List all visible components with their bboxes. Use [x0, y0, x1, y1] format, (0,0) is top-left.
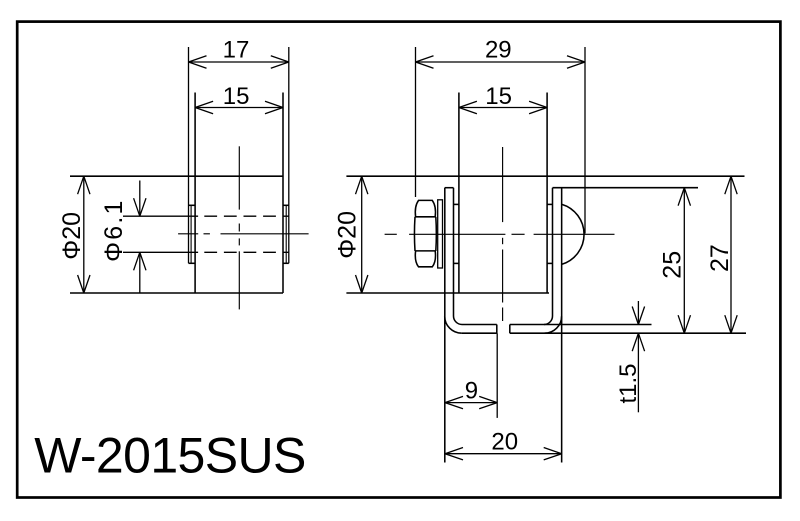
svg-text:20: 20 [491, 428, 518, 455]
svg-text:15: 15 [223, 83, 250, 110]
svg-text:9: 9 [465, 378, 478, 405]
svg-text:25: 25 [658, 251, 686, 279]
svg-text:Φ6.1: Φ6.1 [100, 198, 128, 262]
svg-text:W-2015SUS: W-2015SUS [34, 428, 306, 484]
svg-text:Φ20: Φ20 [334, 211, 362, 259]
svg-text:29: 29 [485, 37, 512, 64]
svg-text:17: 17 [223, 37, 250, 64]
svg-text:27: 27 [706, 244, 734, 272]
svg-text:15: 15 [485, 83, 512, 110]
svg-text:Φ20: Φ20 [58, 212, 86, 260]
svg-text:t1.5: t1.5 [615, 363, 642, 403]
